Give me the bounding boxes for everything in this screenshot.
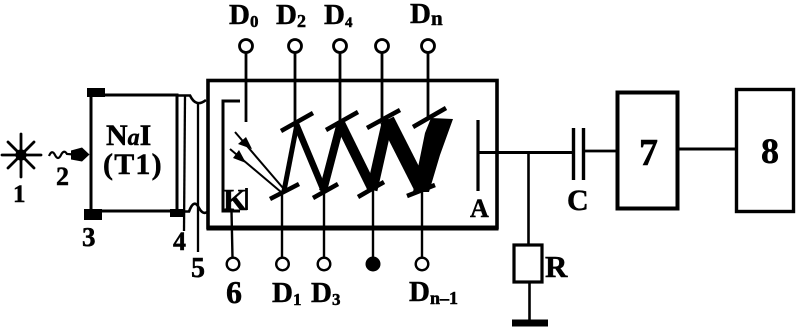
dynode bottom D3 xyxy=(313,184,338,198)
svg-text:K: K xyxy=(223,182,247,217)
amplifier box 7 xyxy=(618,93,678,209)
wire R to ground xyxy=(528,282,531,321)
NaI(Tl) crystal box 3 xyxy=(91,95,177,211)
dynode top D4 xyxy=(326,112,358,130)
dynode top D2 xyxy=(281,113,313,131)
gamma ray wavy arrow 2 xyxy=(49,148,90,162)
cascade arrowhead xyxy=(413,118,453,192)
dynode top mid xyxy=(367,110,400,128)
svg-text:(T1): (T1) xyxy=(103,148,163,181)
svg-text:Dn: Dn xyxy=(410,0,443,30)
pin D0 terminal xyxy=(240,40,253,123)
svg-text:Dn–1: Dn–1 xyxy=(409,276,458,308)
crystal tab bottom-right xyxy=(170,209,184,217)
coupling capacitor C xyxy=(574,128,584,180)
svg-text:D0: D0 xyxy=(229,0,258,31)
svg-text:D2: D2 xyxy=(276,0,306,31)
svg-text:D3: D3 xyxy=(311,277,340,309)
pin D3 xyxy=(318,191,331,270)
svg-text:4: 4 xyxy=(173,227,186,256)
neck bottom curve xyxy=(177,204,207,213)
svg-text:1: 1 xyxy=(13,181,26,208)
svg-text:5: 5 xyxy=(191,253,205,284)
crystal tab bottom-left xyxy=(84,209,102,220)
electron cascade zigzag xyxy=(284,119,422,191)
pin mid-top terminal xyxy=(376,40,389,123)
svg-text:D1: D1 xyxy=(272,277,301,309)
svg-text:3: 3 xyxy=(82,222,96,252)
recorder box 8 xyxy=(737,90,794,212)
photoelectron arrow a xyxy=(235,132,283,188)
crystal tab top-left xyxy=(87,88,105,97)
radiation source star 1 xyxy=(2,134,41,177)
wire box 7 to box 8 xyxy=(678,148,736,151)
svg-text:D4: D4 xyxy=(324,0,353,31)
star center dot xyxy=(15,149,26,160)
dynode bottom D1 xyxy=(270,184,299,199)
junction wire down to R xyxy=(527,153,530,246)
pin mid-bottom dot xyxy=(366,189,381,272)
svg-text:C: C xyxy=(567,184,589,217)
photoelectron arrow b xyxy=(230,149,281,192)
neck top curve xyxy=(177,96,206,104)
pin D2 terminal xyxy=(289,40,302,127)
dynode bottom Dn-1 xyxy=(407,185,435,196)
pin Dn terminal xyxy=(422,40,435,121)
dynode bottom mid xyxy=(358,182,384,197)
photocathode K bracket xyxy=(223,101,240,211)
svg-text:2: 2 xyxy=(56,162,69,191)
svg-text:R: R xyxy=(545,249,568,284)
wire capacitor to box 7 xyxy=(584,150,618,153)
anode output wire xyxy=(479,151,572,154)
pin D4 terminal xyxy=(334,40,347,125)
load resistor R xyxy=(514,245,542,282)
dynode top Dn xyxy=(413,108,446,127)
cathode pin 6 wire xyxy=(227,211,240,270)
svg-text:A: A xyxy=(470,194,489,223)
svg-text:8: 8 xyxy=(761,131,779,171)
crystal window line 4 xyxy=(184,96,185,231)
PMT envelope box xyxy=(208,81,497,228)
pmt window line 5 xyxy=(197,104,199,252)
pin Dn-1 xyxy=(416,189,429,270)
anode bar A xyxy=(476,120,479,191)
svg-text:6: 6 xyxy=(226,274,242,310)
ground xyxy=(512,320,548,327)
pin D1 xyxy=(276,192,289,270)
PMT envelope bottom heavy edge xyxy=(207,226,499,231)
photocathode stub xyxy=(245,188,248,210)
svg-text:7: 7 xyxy=(639,132,658,174)
